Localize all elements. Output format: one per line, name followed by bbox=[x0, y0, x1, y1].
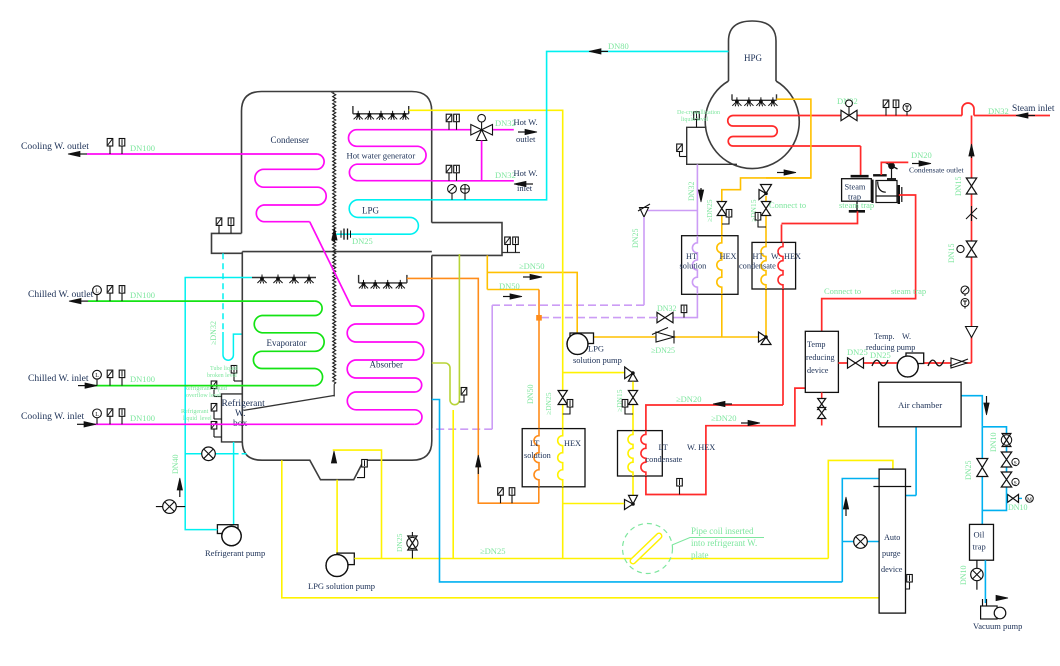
cyan up arrow bbox=[179, 487, 181, 497]
golden DN50 branch to pump bbox=[487, 272, 577, 333]
HT solution HEX purple coil bbox=[692, 236, 697, 295]
svg-text:DN80: DN80 bbox=[608, 41, 629, 51]
hot W 3-way valve bbox=[471, 125, 493, 141]
condensate outlet pipe bbox=[881, 162, 908, 175]
yellow branch drop bbox=[632, 382, 634, 431]
svg-text:≥DN20: ≥DN20 bbox=[711, 413, 736, 423]
svg-text:Air chamber: Air chamber bbox=[898, 400, 942, 410]
purple pipe to west bbox=[492, 304, 644, 306]
svg-text:into refrigerant W.: into refrigerant W. bbox=[691, 538, 757, 548]
blue DN10 side valve bbox=[1007, 497, 1023, 499]
golden DN50 lower branch bbox=[487, 289, 539, 291]
red pipe steam trap connect bbox=[822, 195, 916, 331]
blue purge valve branch bbox=[842, 541, 879, 543]
hot W outlet instruments bbox=[448, 122, 450, 130]
yellow LT solution HEX out bbox=[562, 487, 564, 559]
cyan pump outlet bbox=[185, 278, 252, 530]
steam trap bottom stem bbox=[856, 201, 858, 210]
svg-text:reducing pump: reducing pump bbox=[866, 343, 915, 352]
svg-text:Connect to: Connect to bbox=[769, 200, 806, 210]
svg-text:L: L bbox=[95, 289, 99, 295]
svg-text:W.: W. bbox=[235, 409, 245, 419]
svg-text:LPG solution pump: LPG solution pump bbox=[308, 581, 375, 591]
steam line instrument bbox=[895, 108, 897, 116]
LT solution HEX yellow coil bbox=[558, 429, 563, 487]
svg-text:solution: solution bbox=[680, 262, 708, 271]
lower vessel shell top edge bbox=[242, 251, 431, 253]
HT condensate HEX box bbox=[752, 242, 796, 289]
cooling outlet instruments bbox=[109, 146, 111, 154]
LPG coil orifice bbox=[343, 229, 345, 240]
chilled W inlet line bbox=[88, 385, 315, 387]
blue purge valve bbox=[854, 535, 868, 549]
DN20 west arrow bbox=[722, 403, 732, 405]
svg-text:liquid level: liquid level bbox=[183, 416, 212, 422]
hot W outlet pipe bbox=[432, 129, 471, 131]
LT condensate HEX yellow coil bbox=[628, 431, 633, 476]
hot W outlet arrow bbox=[518, 131, 528, 133]
svg-text:Temp.: Temp. bbox=[874, 332, 895, 341]
condensate outlet arrow bbox=[912, 163, 922, 165]
steam riser up arrow bbox=[971, 153, 973, 158]
svg-text:≥DN20: ≥DN20 bbox=[676, 394, 701, 404]
orange LT HEX coil link bbox=[538, 487, 540, 503]
LT solution HEX box bbox=[522, 429, 585, 487]
svg-text:reducing: reducing bbox=[806, 353, 835, 362]
orange instruments bbox=[500, 495, 502, 503]
svg-text:Vacuum pump: Vacuum pump bbox=[973, 621, 1022, 631]
refrigerant drain valve bbox=[163, 500, 177, 514]
golden instrument 2 bbox=[758, 224, 766, 227]
chilled inlet instruments bbox=[96, 379, 98, 386]
yellow spray supply riser bbox=[409, 110, 563, 429]
blue air chamber outlet bbox=[961, 396, 982, 427]
svg-text:DN100: DN100 bbox=[130, 413, 155, 423]
blue purge up arrow bbox=[845, 506, 847, 516]
cyan seal trap to evaporator bbox=[223, 332, 242, 360]
steam line instrument bbox=[885, 108, 887, 116]
lower vessel right wall bbox=[431, 255, 433, 441]
yellow charge valve stub bbox=[411, 532, 413, 559]
blue DN25 drop bbox=[981, 427, 983, 525]
refrigerant box partition slant bbox=[244, 395, 335, 410]
instrument on left box bbox=[218, 225, 220, 233]
stub right of LPG header box bbox=[502, 252, 520, 254]
red DN20 west run bbox=[646, 405, 783, 431]
cyan gauge 1 bbox=[451, 193, 453, 200]
svg-text:condensate: condensate bbox=[646, 455, 683, 464]
svg-text:LPG: LPG bbox=[588, 344, 604, 354]
yellow vessel drain bbox=[282, 460, 879, 598]
svg-text:condensate: condensate bbox=[739, 262, 776, 271]
hot water generator coil bbox=[348, 130, 431, 181]
svg-text:plate: plate bbox=[691, 550, 709, 560]
HPG vessel circle body bbox=[705, 81, 799, 169]
HT solution HEX golden coil bbox=[717, 236, 722, 295]
svg-text:Condenser: Condenser bbox=[271, 135, 310, 145]
yellow valve DN15 bbox=[628, 391, 637, 405]
orange drop from DN50 bbox=[538, 290, 540, 429]
tube broken level instrument bbox=[234, 380, 242, 382]
cyan condensate DN32 drop bbox=[222, 253, 224, 332]
absorber spray header bbox=[359, 282, 407, 284]
steam riser junction relief bbox=[966, 327, 978, 338]
purple DN32 valve bbox=[657, 312, 673, 322]
lower vessel bottom with sump bbox=[242, 441, 431, 480]
svg-text:Condensate outlet: Condensate outlet bbox=[909, 166, 965, 175]
absorber coil bbox=[347, 306, 424, 424]
svg-text:≥DN50: ≥DN50 bbox=[519, 261, 544, 271]
divider up arrow bbox=[333, 237, 335, 242]
yellow valve DN25 main bbox=[558, 391, 567, 405]
svg-text:DN10: DN10 bbox=[959, 565, 968, 585]
LT condensate HEX box bbox=[618, 431, 663, 476]
HT solution HEX box bbox=[682, 236, 738, 295]
oil trap drain valve bbox=[971, 568, 983, 580]
HT condensate HEX red coil bbox=[778, 242, 783, 289]
purple pipe HPG down bbox=[696, 164, 698, 235]
yellow main suction header bbox=[354, 558, 828, 560]
yellow standpipe arrow bbox=[333, 460, 335, 463]
svg-text:outlet: outlet bbox=[516, 134, 536, 144]
svg-text:S: S bbox=[1014, 461, 1017, 467]
svg-text:HEX: HEX bbox=[784, 252, 801, 261]
cooling W inlet line bbox=[87, 423, 415, 425]
HPG vessel neck and dome bbox=[729, 21, 777, 81]
hot W inlet arrow bbox=[523, 183, 533, 185]
yellow pump branch bbox=[563, 372, 625, 374]
purple bypass down bbox=[643, 217, 645, 305]
DN80 arrow bbox=[598, 50, 608, 52]
steam riser DN15 bbox=[971, 116, 973, 364]
LPG coil in upper vessel bbox=[336, 200, 431, 234]
cyan refrigerant pump suction bbox=[233, 442, 235, 526]
chartreuse seal from absorber bbox=[432, 254, 460, 405]
steam inlet arrow bbox=[1025, 115, 1035, 117]
chartreuse instrument bbox=[459, 399, 464, 402]
LPG solution pump upper bbox=[570, 333, 594, 344]
golden pipe HPG spray to trap loop bbox=[722, 99, 811, 236]
golden valve DN25 bbox=[717, 202, 726, 216]
yellow sump standpipe bbox=[333, 450, 382, 558]
yellow branch angle valve bbox=[625, 367, 633, 379]
temp device outlet red bbox=[838, 362, 971, 364]
steam riser strainer symbol bbox=[971, 206, 973, 221]
evaporator spray header bbox=[252, 277, 316, 279]
svg-text:DN50: DN50 bbox=[499, 281, 520, 291]
svg-text:Absorber: Absorber bbox=[370, 360, 404, 370]
blue to vacuum pump bbox=[984, 560, 986, 603]
svg-text:Refrigerant: Refrigerant bbox=[222, 398, 266, 409]
svg-text:≥DN25: ≥DN25 bbox=[651, 346, 675, 355]
blue DN10 branch bbox=[982, 427, 1006, 493]
svg-text:W.: W. bbox=[771, 252, 780, 261]
yellow LT condensate HEX out bbox=[632, 476, 634, 497]
svg-text:S: S bbox=[1014, 481, 1017, 487]
svg-text:W.: W. bbox=[902, 332, 911, 341]
instrument on left box bbox=[230, 225, 232, 233]
refrigerant W. box outline bbox=[222, 394, 243, 442]
svg-text:Refrigerant pump: Refrigerant pump bbox=[205, 548, 265, 558]
evaporator coil bbox=[253, 301, 324, 386]
auto purge flange bbox=[873, 486, 911, 488]
svg-text:Temp: Temp bbox=[807, 340, 826, 349]
svg-text:Tube liquid: Tube liquid bbox=[210, 366, 238, 372]
instrument on LPG header box bbox=[507, 245, 509, 253]
svg-text:Cooling W. outlet: Cooling W. outlet bbox=[21, 141, 89, 152]
steam shutoff valve bbox=[841, 110, 857, 120]
svg-text:≥DN25: ≥DN25 bbox=[544, 392, 553, 415]
steam trap flange bottom bbox=[849, 210, 865, 213]
svg-text:DN100: DN100 bbox=[130, 143, 155, 153]
LT solution HEX orange coil bbox=[534, 429, 539, 487]
steam riser valve DN15 bbox=[966, 178, 976, 194]
air chamber box bbox=[879, 382, 962, 427]
steam inlet loop seal bbox=[962, 103, 974, 116]
steam riser valve 2 bbox=[966, 241, 976, 257]
temp pump check valve bbox=[951, 358, 967, 368]
refrigerant drain valve stub bbox=[156, 506, 185, 508]
steam inlet pipe right bbox=[974, 115, 1050, 117]
steam trap bottom pipe bbox=[782, 211, 858, 223]
pipe coil leader bbox=[672, 538, 764, 546]
pipe coil detail dashed circle bbox=[623, 524, 673, 574]
svg-text:HEX: HEX bbox=[720, 252, 737, 261]
orange junction square bbox=[537, 316, 541, 320]
svg-text:L: L bbox=[95, 373, 99, 379]
temp reducing pump bbox=[906, 353, 924, 364]
left condensate box on upper vessel bbox=[212, 233, 243, 253]
svg-text:purge: purge bbox=[882, 549, 901, 558]
DN20 east arrow bbox=[741, 422, 751, 424]
svg-text:Auto: Auto bbox=[884, 533, 900, 542]
temp pump valve bbox=[848, 358, 864, 368]
HT solution HEX golden coil out bbox=[721, 294, 723, 336]
chilled W inlet arrow bbox=[78, 385, 88, 387]
cyan gauge 2 bbox=[464, 193, 466, 200]
svg-text:device: device bbox=[807, 366, 829, 375]
svg-text:HPG: HPG bbox=[744, 53, 763, 63]
de-crystallization instrument bbox=[696, 119, 698, 127]
temp device drain valve bbox=[818, 399, 826, 410]
red inst LT bbox=[679, 490, 681, 495]
pipe coil symbol bbox=[633, 536, 659, 561]
cooling inlet instruments bbox=[96, 418, 98, 425]
svg-text:DN25: DN25 bbox=[847, 347, 868, 357]
golden corner angle valve bbox=[759, 332, 767, 342]
yellow inst bbox=[625, 411, 633, 414]
svg-text:DN100: DN100 bbox=[130, 290, 155, 300]
cooling W inlet arrow bbox=[77, 423, 87, 425]
refrigerant pump bbox=[217, 525, 238, 534]
right LPG header box on upper vessel bbox=[432, 223, 502, 256]
condenser coil bbox=[255, 154, 326, 222]
blue S valve 1 bbox=[1001, 452, 1011, 467]
hot W inlet instruments bbox=[448, 173, 450, 181]
hot W bypass bbox=[481, 141, 483, 181]
svg-text:solution: solution bbox=[524, 451, 552, 460]
svg-text:DN25: DN25 bbox=[395, 533, 404, 552]
purple HEX outlet pipe bbox=[674, 294, 698, 317]
lower vessel left wall bbox=[241, 252, 243, 442]
svg-text:DN25: DN25 bbox=[964, 460, 973, 480]
orange under-HEX run bbox=[407, 278, 539, 503]
instrument on LPG header box bbox=[515, 245, 517, 253]
HPG left protrusion box bbox=[687, 127, 737, 164]
svg-text:Steam: Steam bbox=[845, 183, 866, 192]
svg-text:LT: LT bbox=[659, 443, 668, 452]
svg-text:steam trap: steam trap bbox=[891, 286, 926, 296]
oil trap drain stub bbox=[976, 560, 978, 590]
yellow to auto purge bbox=[828, 460, 893, 558]
svg-text:trap: trap bbox=[973, 542, 986, 552]
yellow inst main bbox=[563, 411, 570, 414]
refrigerant overflow instrument bbox=[214, 396, 222, 398]
sump instrument bbox=[357, 472, 365, 478]
svg-text:≥DN25: ≥DN25 bbox=[705, 199, 714, 222]
HT condensate HEX golden coil bbox=[761, 242, 766, 289]
svg-text:overflow level: overflow level bbox=[186, 392, 221, 399]
svg-text:solution pump: solution pump bbox=[573, 355, 622, 365]
purple into absorber bbox=[432, 428, 492, 430]
golden from LPG header box bbox=[486, 255, 488, 289]
cooling W outlet line bbox=[87, 153, 317, 155]
yellow from seal trap bbox=[452, 410, 454, 559]
svg-text:L: L bbox=[95, 412, 99, 418]
temp device drain bbox=[821, 392, 823, 425]
oil trap box bbox=[970, 524, 994, 560]
cyan DN80 vapor line HPG to condenser bbox=[432, 51, 729, 199]
blue purge from absorber bbox=[432, 400, 843, 582]
svg-text:DN15: DN15 bbox=[947, 243, 956, 263]
purple bypass branch bbox=[644, 210, 697, 212]
DN50 branch arrow bbox=[523, 276, 533, 278]
svg-text:DN32: DN32 bbox=[657, 304, 677, 313]
blue riser to purge device bbox=[842, 479, 879, 582]
purple to orange junction bbox=[541, 317, 657, 319]
svg-text:≥DN32: ≥DN32 bbox=[209, 321, 218, 345]
steam line gauge bbox=[906, 112, 908, 116]
steam line segment valve-loop bbox=[857, 115, 962, 117]
temp reducing device box bbox=[805, 331, 838, 392]
golden valve DN15 bbox=[761, 202, 770, 216]
svg-text:W. HEX: W. HEX bbox=[687, 443, 715, 452]
svg-text:Chilled W. outlet: Chilled W. outlet bbox=[28, 289, 94, 300]
cyan recirc valve bbox=[202, 447, 216, 461]
svg-text:HT: HT bbox=[686, 252, 697, 261]
blue DN25 valve bbox=[977, 459, 988, 477]
red LT condensate HEX out bbox=[646, 388, 805, 494]
svg-text:HEX: HEX bbox=[564, 439, 581, 448]
svg-text:LPG: LPG bbox=[362, 206, 380, 216]
vacuum pump arrow bbox=[996, 597, 999, 599]
cooling W outlet arrow bbox=[77, 153, 87, 155]
svg-text:Hot W.: Hot W. bbox=[514, 117, 538, 127]
svg-text:HT: HT bbox=[753, 252, 764, 261]
condenser-absorber crossover bbox=[310, 222, 351, 306]
LT condensate HEX red coil bbox=[641, 431, 646, 476]
refrigerant liquid level instrument bbox=[214, 418, 222, 420]
purple relief valve bbox=[640, 208, 649, 218]
purple line instrument bbox=[683, 313, 685, 318]
svg-text:DN20: DN20 bbox=[911, 150, 932, 160]
svg-text:DN32: DN32 bbox=[687, 181, 696, 201]
svg-text:DN40: DN40 bbox=[171, 454, 180, 474]
svg-text:Cooling W. inlet: Cooling W. inlet bbox=[21, 411, 84, 422]
temp pump flex 2 bbox=[928, 360, 944, 366]
svg-text:Oil: Oil bbox=[974, 530, 986, 540]
zigzag divider between sections bbox=[333, 93, 336, 384]
svg-text:Connect to: Connect to bbox=[824, 286, 861, 296]
chilled W outlet line bbox=[88, 300, 315, 302]
temp pump flex 1 bbox=[872, 360, 888, 366]
zigzag lower stub bbox=[333, 384, 335, 396]
svg-text:Hot W.: Hot W. bbox=[514, 168, 538, 178]
svg-text:DN32: DN32 bbox=[988, 106, 1009, 116]
svg-text:≥DN25: ≥DN25 bbox=[480, 546, 505, 556]
hot W inlet pipe bbox=[432, 180, 514, 182]
blue DN10 valve bbox=[1002, 434, 1011, 447]
cyan recirculation line bbox=[185, 453, 233, 455]
svg-text:broken level: broken level bbox=[207, 373, 237, 379]
upper vessel shell (condenser / hot water generator) bbox=[242, 92, 432, 234]
svg-text:Pipe coil inserted: Pipe coil inserted bbox=[691, 526, 754, 536]
golden instrument 1 bbox=[722, 221, 729, 224]
svg-text:De-crystallization: De-crystallization bbox=[677, 110, 720, 116]
svg-text:Steam inlet: Steam inlet bbox=[1012, 104, 1055, 114]
svg-text:DN100: DN100 bbox=[130, 374, 155, 384]
svg-text:Hot water generator: Hot water generator bbox=[347, 151, 416, 161]
purple drop west bbox=[491, 305, 493, 429]
HPG left instrument bbox=[680, 156, 687, 158]
refrigerant box lower instrument bbox=[214, 436, 222, 438]
svg-text:DN25: DN25 bbox=[352, 236, 373, 246]
blue air chamber drop bbox=[915, 427, 917, 496]
HPG internal steam coil bbox=[728, 116, 861, 147]
svg-text:DN25: DN25 bbox=[631, 228, 640, 248]
golden flow arrow bbox=[777, 172, 787, 174]
golden check valve low bbox=[656, 332, 674, 342]
svg-text:DN50: DN50 bbox=[526, 384, 535, 404]
blue rejoin bbox=[982, 493, 1006, 510]
svg-text:LT: LT bbox=[530, 439, 539, 448]
hot water generator spray header bbox=[353, 113, 409, 115]
steam trap body box bbox=[842, 179, 872, 202]
HPG spray header bbox=[732, 99, 777, 101]
steam trap side mechanism bbox=[871, 180, 873, 203]
yellow cross run bbox=[563, 503, 625, 505]
golden low header bbox=[594, 336, 767, 338]
LPG solution pump lower bbox=[337, 553, 354, 565]
svg-text:steam trap: steam trap bbox=[839, 200, 874, 210]
red drop through HT condensate HEX bbox=[782, 289, 784, 405]
chilled outlet instruments bbox=[96, 295, 98, 302]
orange up arrow bbox=[477, 464, 479, 474]
steam riser gauge bbox=[964, 294, 966, 296]
svg-text:device: device bbox=[881, 565, 903, 574]
purple down arrow bbox=[700, 188, 702, 193]
yellow angle valve low bbox=[629, 495, 638, 504]
svg-text:liquid level: liquid level bbox=[681, 117, 708, 123]
auto purge device box bbox=[879, 469, 905, 613]
svg-text:DN10: DN10 bbox=[1008, 503, 1028, 512]
vacuum pump symbol bbox=[981, 606, 998, 619]
golden branch to HT condensate HEX bbox=[766, 177, 811, 179]
svg-text:DN10: DN10 bbox=[989, 432, 998, 452]
steam trap flange top bbox=[851, 175, 869, 178]
auto purge instrument bbox=[906, 586, 910, 589]
red pipe HPG to steam trap bbox=[860, 146, 862, 175]
